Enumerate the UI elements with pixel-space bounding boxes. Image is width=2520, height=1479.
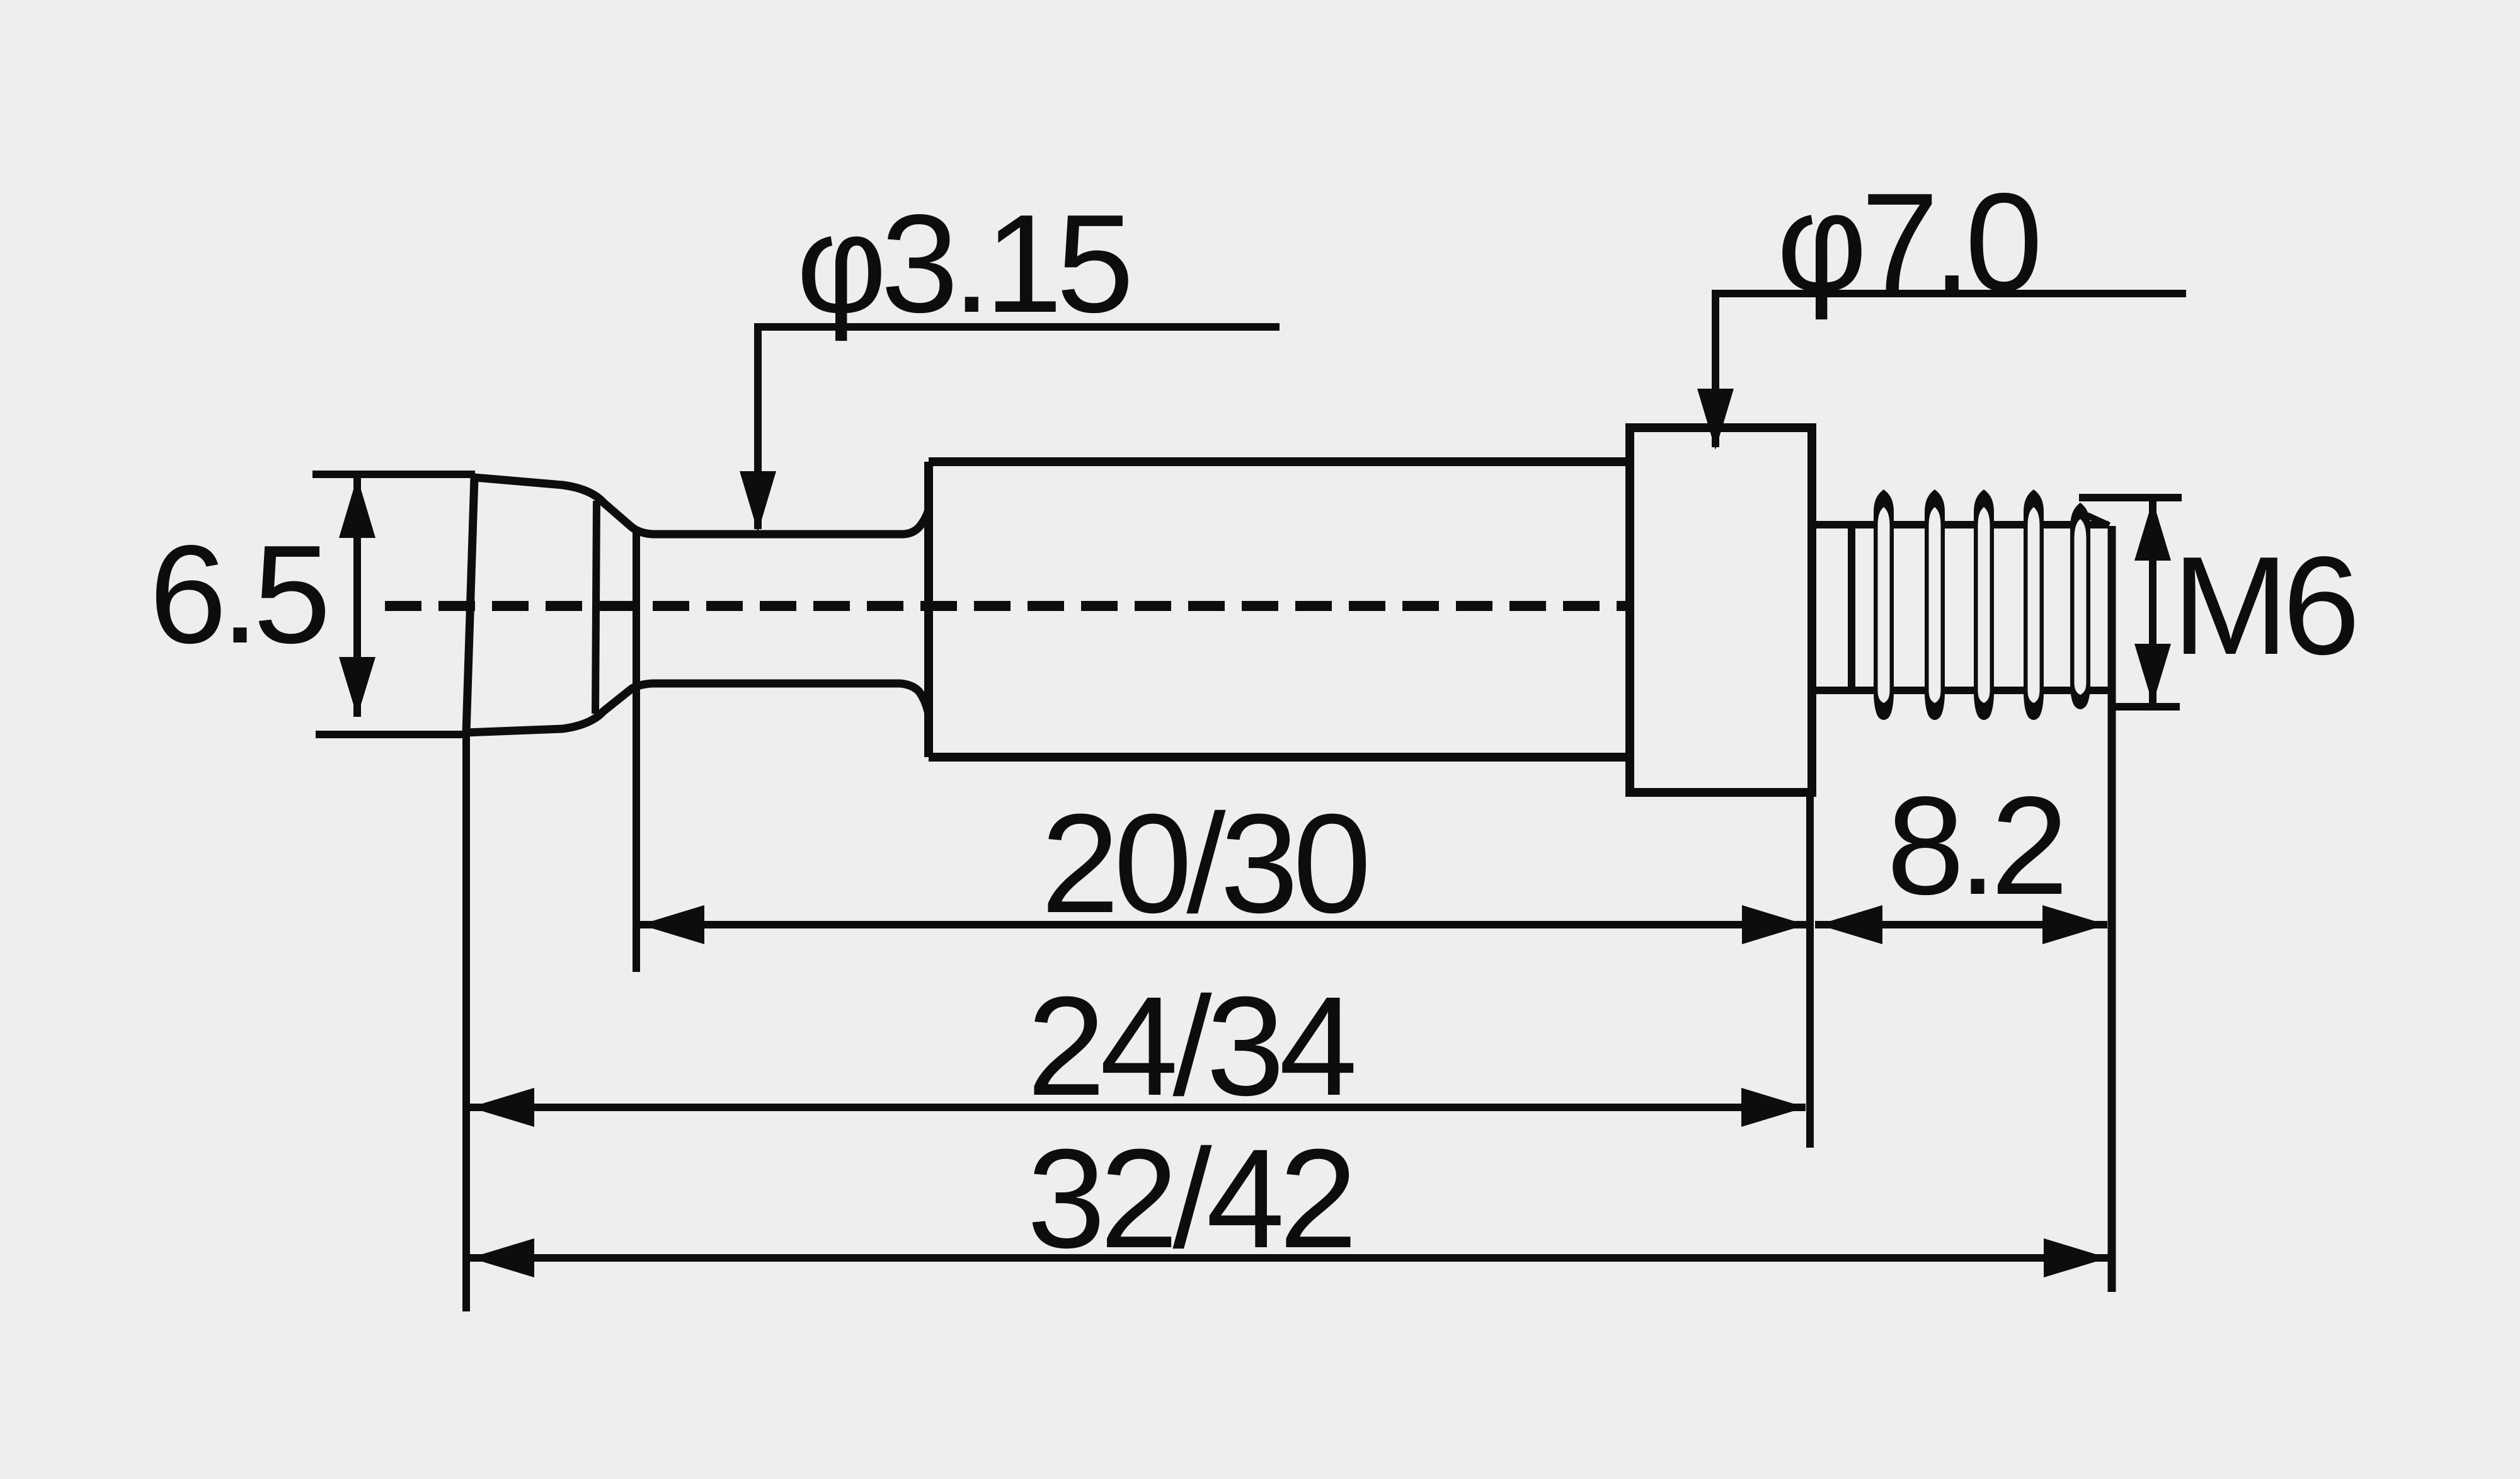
dim 8.2 right arrow	[2042, 905, 2107, 944]
thread crest 1	[1874, 489, 1894, 720]
svg-text:6.5: 6.5	[149, 517, 326, 673]
dim M6 up arrow	[2134, 500, 2171, 561]
stud end top chamfer	[2087, 515, 2109, 525]
leader line phi7.0	[1715, 294, 2186, 447]
thread crest 5 (shorter)	[2070, 503, 2090, 709]
body top line	[929, 457, 1630, 466]
dim 8.2 left arrow	[1818, 905, 1882, 944]
svg-text:8.2: 8.2	[1887, 768, 2063, 924]
dim 20/30 dimension line	[640, 921, 1806, 928]
thread crest 3	[1974, 489, 1994, 720]
cap cone base edge (inner vertical line)	[595, 501, 597, 714]
dim 20/30 left arrow	[640, 905, 704, 944]
dim 32/42 left arrow	[470, 1238, 534, 1277]
dim 8.2 dimension line	[1815, 921, 2107, 928]
thread root top line	[1812, 521, 2109, 528]
dim M6 down arrow	[2134, 644, 2171, 704]
dim 32/42 dimension line	[470, 1254, 2111, 1262]
leader arrow phi7.0	[1697, 389, 1734, 450]
dim 6.5 down arrow	[339, 657, 375, 717]
svg-text:M6: M6	[2172, 528, 2354, 684]
dim 6.5 up arrow	[339, 477, 375, 538]
dim 6.5 dimension line	[353, 476, 361, 717]
dim M6 top extension line	[2079, 494, 2182, 501]
thread crest 4	[2024, 489, 2044, 720]
dim 20/30 right arrow	[1742, 905, 1806, 944]
dim M6 dimension line	[2149, 500, 2156, 704]
dim 20/30 left extension line	[633, 530, 640, 972]
dim 24/34 dimension line	[470, 1104, 1806, 1111]
svg-text:20/30: 20/30	[1041, 785, 1366, 942]
svg-text:24/34: 24/34	[1027, 968, 1354, 1125]
leader line phi3.15	[758, 327, 1280, 529]
dim 24/34 right arrow	[1741, 1088, 1806, 1127]
dim 24/34 left arrow	[470, 1088, 534, 1127]
cap bottom outline (left end cap and thin shaft bottom)	[466, 683, 928, 733]
svg-text:φ7.0: φ7.0	[1777, 164, 2037, 321]
dim 6.5 bottom extension line	[316, 731, 467, 738]
thread crest 2	[1925, 489, 1945, 720]
flange rectangle	[1630, 428, 1812, 792]
thread root bottom line	[1812, 687, 2109, 694]
stud end face and extension line (8.2 / 32/42 right)	[2108, 526, 2116, 1292]
body bottom line	[929, 753, 1630, 762]
dim 24/34 left extension line	[462, 733, 470, 1311]
leader arrow phi3.15	[740, 471, 776, 532]
body left edge	[924, 462, 933, 757]
svg-text:φ3.15: φ3.15	[796, 186, 1129, 342]
dim 32/42 right arrow	[2044, 1238, 2108, 1277]
thread start vertical line	[1848, 525, 1855, 690]
dim 6.5 top extension line	[312, 471, 475, 478]
flange right extension line (20/30 and 8.2)	[1806, 795, 1814, 1148]
svg-text:32/42: 32/42	[1027, 1120, 1352, 1277]
dim M6 bottom extension line	[2114, 703, 2180, 711]
cap top outline (left end cap and thin shaft top)	[466, 477, 928, 733]
centerline (dashed axis)	[385, 601, 1625, 611]
